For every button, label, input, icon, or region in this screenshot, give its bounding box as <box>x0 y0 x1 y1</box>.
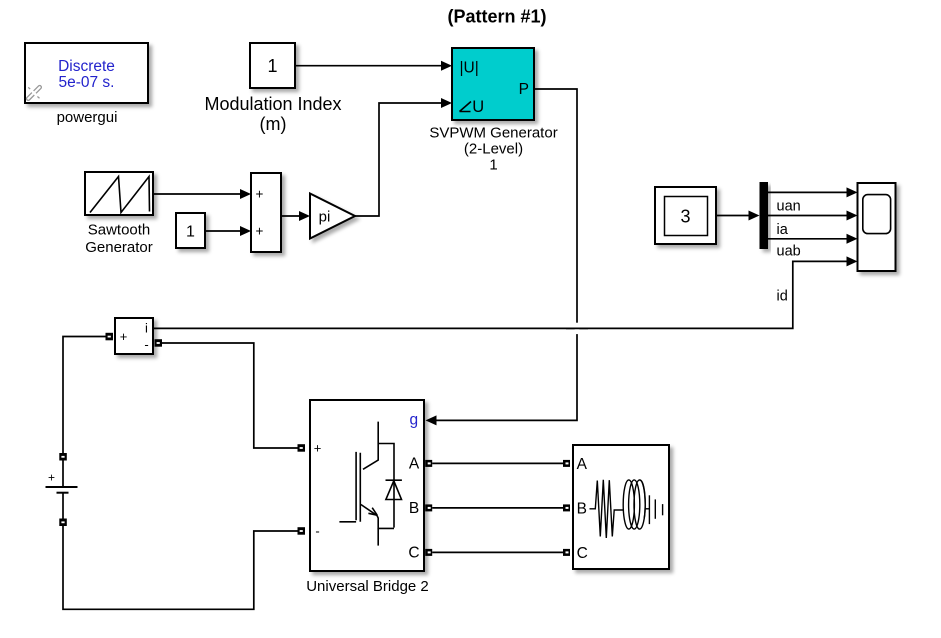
sum block S1 <box>251 173 281 252</box>
wire sum to gain <box>281 215 300 217</box>
svg-text:(Pattern #1): (Pattern #1) <box>447 7 546 27</box>
CM1 left port <box>106 333 114 341</box>
title annotation "(Pattern #1)" <box>447 7 546 27</box>
wire bridge B to load B <box>432 507 563 509</box>
svg-text:C: C <box>408 545 419 562</box>
arrowhead at sum input 1 <box>240 189 251 199</box>
Sawtooth Generator block <box>85 172 153 215</box>
scope block <box>858 183 896 271</box>
SVPWM Generator label <box>429 125 557 174</box>
wire gain to angle-U input <box>355 103 442 216</box>
wire CM1 plus to DC source <box>63 337 106 454</box>
svg-text:A: A <box>409 456 420 473</box>
wire CM1 minus to bridge plus <box>162 343 298 448</box>
svg-text:Sawtooth: Sawtooth <box>88 222 151 239</box>
demux M1 (bus selector bar) <box>760 182 769 249</box>
svg-text:i: i <box>145 321 148 336</box>
universal bridge block UB1 <box>310 400 424 571</box>
wire crossover gap at id/P crossing <box>566 323 588 334</box>
svg-text:Universal Bridge 2: Universal Bridge 2 <box>306 578 429 595</box>
arrowhead at sum input 2 <box>240 226 251 236</box>
svg-text:C: C <box>577 545 588 562</box>
bridge plus port <box>298 444 306 452</box>
svg-text:+: + <box>120 329 128 344</box>
wire bridge C to load C <box>432 551 563 553</box>
svg-text:Discrete: Discrete <box>58 58 115 75</box>
bridge port C <box>425 549 432 556</box>
svg-text:pi: pi <box>319 209 331 226</box>
svg-text:+: + <box>256 187 264 202</box>
svg-text:+: + <box>314 441 322 456</box>
Sawtooth Generator label <box>85 222 153 257</box>
CM1 minus port <box>155 339 163 347</box>
arrowhead scope in3 <box>847 234 858 244</box>
svg-text:1: 1 <box>267 56 277 76</box>
svg-text:U: U <box>472 98 484 116</box>
constant C1 "1" (Modulation Index) <box>250 43 295 88</box>
svg-text:powergui: powergui <box>57 109 118 126</box>
svg-text:SVPWM Generator: SVPWM Generator <box>429 125 557 142</box>
svg-text:-: - <box>144 337 148 352</box>
svg-text:Modulation Index: Modulation Index <box>204 94 341 114</box>
label ia <box>777 222 789 238</box>
svg-text:|U|: |U| <box>460 60 479 77</box>
arrowhead at |U| <box>441 61 452 71</box>
universal bridge label <box>306 578 429 595</box>
svg-text:+: + <box>48 471 55 485</box>
wire demux out3 (uab) to scope <box>768 238 847 240</box>
constant C3 "3" <box>655 187 716 244</box>
DC source B1 <box>46 453 78 526</box>
svg-text:B: B <box>409 500 419 517</box>
powergui broken-link icon <box>26 85 42 101</box>
svg-text:3: 3 <box>680 207 690 227</box>
bridge port A <box>425 460 432 467</box>
svg-text:(2-Level): (2-Level) <box>464 141 523 158</box>
arrowhead at gain input <box>299 211 310 221</box>
three-phase load block L1 <box>573 445 669 569</box>
wire C2 to sum input 2 <box>205 230 241 232</box>
arrowhead scope in2 <box>847 211 858 221</box>
svg-text:+: + <box>256 224 264 239</box>
svg-text:id: id <box>777 289 788 305</box>
svg-text:B: B <box>577 501 587 518</box>
bridge minus port <box>298 527 306 535</box>
load port C <box>563 549 570 556</box>
arrowhead at angle-U <box>441 98 452 108</box>
gain block G1 "pi" <box>310 194 355 239</box>
arrowhead at demux input <box>749 211 760 221</box>
svg-text:uan: uan <box>777 199 801 215</box>
label uab <box>777 244 801 260</box>
svg-text:1: 1 <box>186 224 195 241</box>
arrowhead scope in4 <box>847 256 858 266</box>
label id <box>777 289 788 305</box>
wire demux out1 (uan) to scope <box>768 191 847 193</box>
svg-text:A: A <box>577 456 588 473</box>
bridge IGBT/diode icon <box>339 422 402 546</box>
wire C3 to demux <box>716 215 749 217</box>
svg-text:g: g <box>410 412 419 429</box>
label uan <box>777 199 801 215</box>
powergui label <box>57 109 118 126</box>
wire sawtooth to sum input 1 <box>153 193 241 195</box>
wire id (current meas. to scope in4) <box>153 261 847 328</box>
load waveform icon <box>590 480 663 538</box>
svg-text:1: 1 <box>489 157 497 174</box>
svg-text:uab: uab <box>777 244 801 260</box>
svg-text:(m): (m) <box>260 114 287 134</box>
svg-text:-: - <box>315 524 319 539</box>
constant C2 "1" (small) <box>176 213 205 248</box>
wire bridge A to load A <box>432 462 563 464</box>
svg-text:ia: ia <box>777 222 789 238</box>
SVPWM Generator block U1 <box>452 48 534 120</box>
wire SVPWM P output to bridge gate <box>437 89 578 420</box>
load port B <box>563 504 570 511</box>
bridge port B <box>425 504 432 511</box>
load port A <box>563 460 570 467</box>
powergui block <box>25 43 148 103</box>
svg-text:5e-07 s.: 5e-07 s. <box>58 74 114 91</box>
wire DC source minus to bridge minus <box>63 526 298 609</box>
svg-text:Generator: Generator <box>85 239 153 256</box>
annotation "Modulation Index (m)" <box>204 94 341 134</box>
svg-text:P: P <box>519 81 529 98</box>
wire demux out2 (ia) to scope <box>768 215 847 217</box>
current measurement block CM1 <box>115 318 153 354</box>
wire C1 to |U| input <box>295 65 442 67</box>
arrowhead at bridge g input <box>426 415 437 425</box>
arrowhead scope in1 <box>847 187 858 197</box>
